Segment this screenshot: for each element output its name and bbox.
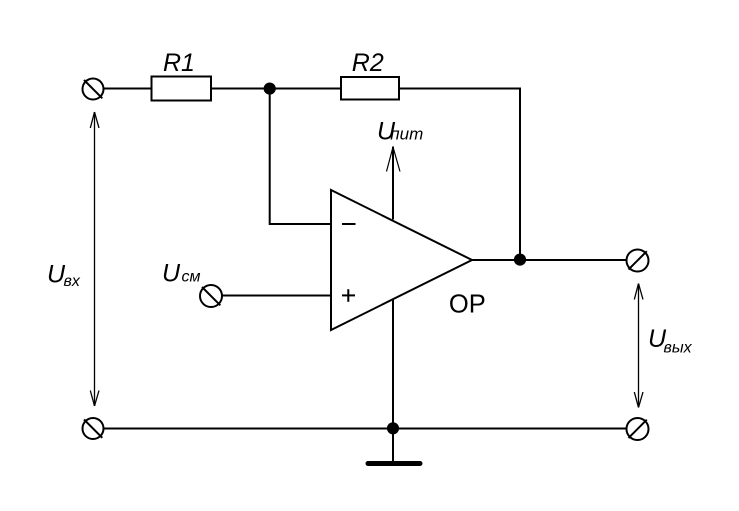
- node A junction dot: [264, 83, 276, 95]
- terminal bottom-right: [627, 418, 649, 440]
- svg-text:R1: R1: [163, 49, 195, 77]
- supply arrow Upit shaft: [392, 147, 394, 220]
- wire output to right terminal: [472, 259, 627, 261]
- resistor R1: [152, 77, 212, 101]
- supply arrow Upit head: [387, 147, 401, 172]
- svg-text:пит: пит: [390, 125, 423, 144]
- node C ground junction dot: [387, 422, 399, 434]
- wire R1 to R2: [211, 88, 341, 90]
- ground bar: [368, 461, 420, 466]
- Uvx measurement arrow: [90, 112, 99, 406]
- op-amp OP triangle: [331, 190, 472, 330]
- Uvyx measurement arrow: [634, 284, 643, 408]
- svg-text:OP: OP: [449, 290, 486, 318]
- svg-text:R2: R2: [352, 49, 384, 77]
- svg-text:вых: вых: [664, 339, 693, 356]
- wire feedback to inverting input: [270, 89, 331, 225]
- input terminal top-left: [83, 79, 104, 100]
- wire R2 to output corner: [399, 89, 520, 261]
- output terminal top-right: [627, 250, 649, 272]
- wire Ucm terminal to plus input: [223, 295, 332, 297]
- terminal bottom-left: [83, 418, 104, 439]
- wire op-amp negative supply to bottom rail and ground: [392, 299, 394, 461]
- offset terminal Ucm: [200, 285, 222, 307]
- wire input to R1: [104, 88, 152, 90]
- plus sign non-inverting input: [342, 289, 355, 302]
- minus sign inverting input: [342, 223, 356, 225]
- resistor R2: [341, 77, 399, 100]
- svg-text:U: U: [162, 260, 181, 288]
- svg-text:вх: вх: [64, 273, 81, 290]
- bottom rail wire: [104, 428, 627, 430]
- node B output junction dot: [514, 254, 526, 266]
- svg-text:см: см: [182, 269, 201, 286]
